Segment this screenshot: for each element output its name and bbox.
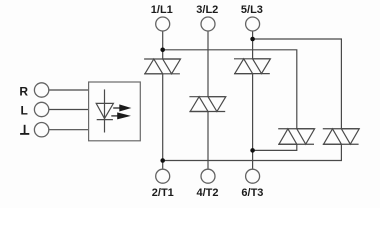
- LED D1 triangle: [96, 103, 113, 118]
- node D junction dot on column 3 at 6/T3: [250, 148, 255, 153]
- wire: control input L to optocoupler box: [49, 109, 89, 111]
- wire: column 3 from terminal 5/L3 down through triac Q3 to terminal 6/T3: [252, 31, 254, 59]
- wire: bottom bus from node C below triac Q1 right and up to bottom of triac Q5: [163, 144, 342, 161]
- terminal circle R: [34, 83, 48, 97]
- svg-text:R: R: [19, 84, 28, 98]
- triac Q4 (reversing, L1 to 6/T3): [278, 129, 314, 144]
- triac Q5 (reversing, L3 to 2/T1): [323, 129, 359, 144]
- LED output arrow 1: [113, 104, 131, 111]
- LED output arrow 2: [111, 112, 131, 119]
- svg-text:L: L: [21, 103, 28, 117]
- node A junction dot on column 1: [160, 48, 165, 53]
- wire: branch from node B on column 3 right to top of triac Q5: [253, 39, 342, 129]
- wire: column 1 from terminal 1/L1 down through triac Q1 to bottom bus: [162, 31, 164, 59]
- wire: column 2 from terminal 3/L2 down through triac Q2 to terminal 4/T2: [207, 31, 209, 97]
- svg-text:6/T3: 6/T3: [241, 187, 263, 199]
- LED D1 cathode bar: [97, 119, 113, 121]
- node C junction dot on bottom bus at 2/T1: [160, 158, 165, 163]
- terminal circle 3/L2: [201, 17, 215, 31]
- triac Q1 (1/L1 to 2/T1): [144, 59, 180, 74]
- terminal circle 5/L3: [246, 17, 260, 31]
- terminal circle 4/T2: [201, 169, 215, 183]
- terminal circle 2/T1: [156, 169, 170, 183]
- triac Q3 (5/L3 to 6/T3): [234, 59, 270, 74]
- svg-text:4/T2: 4/T2: [196, 187, 218, 199]
- terminal circle ground: [34, 123, 48, 137]
- svg-text:2/T1: 2/T1: [152, 187, 174, 199]
- wire: control input ground to optocoupler box: [49, 129, 89, 131]
- terminal circle L: [34, 102, 48, 116]
- optocoupler box U1: [89, 82, 141, 141]
- svg-text:3/L2: 3/L2: [196, 4, 218, 16]
- svg-text:1/L1: 1/L1: [151, 4, 173, 16]
- terminal circle 6/T3: [246, 169, 260, 183]
- wire: branch from node A on column 1 right to top of triac Q4: [163, 50, 297, 129]
- terminal circle 1/L1: [156, 17, 170, 31]
- wire: bottom of triac Q4 down and left to node D on column 3: [253, 144, 297, 150]
- wire: control input R to optocoupler box: [49, 89, 89, 91]
- node B junction dot on column 3: [250, 37, 255, 42]
- triac Q2 (3/L2 to 4/T2): [189, 97, 225, 112]
- label ground symbol: [20, 125, 29, 134]
- LED D1 vertical wire inside box: [104, 89, 106, 132]
- svg-text:5/L3: 5/L3: [241, 4, 263, 16]
